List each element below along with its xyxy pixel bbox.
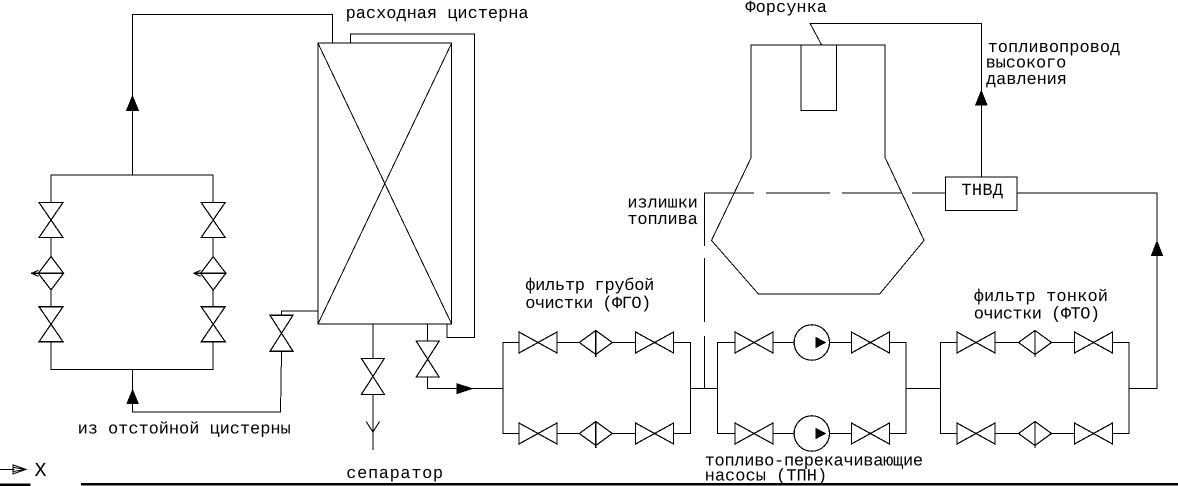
svg-text:ТНВД: ТНВД: [961, 182, 1003, 201]
svg-text:из отстойной цистерны: из отстойной цистерны: [78, 421, 291, 440]
valve right branch upper: [201, 203, 225, 238]
wire: TPN top branch: [718, 342, 906, 344]
flow arrow up into loop: [126, 389, 139, 405]
wire: separator line down with open arrow: [372, 394, 374, 449]
valve FTO top left: [957, 332, 995, 353]
X axis marker: [0, 468, 14, 470]
engine / cylinder outline: [712, 45, 925, 294]
flow arrow up on high pressure line: [975, 90, 988, 106]
svg-text:очистки (ФГО): очистки (ФГО): [525, 295, 651, 314]
flow arrow right to FGO: [457, 383, 474, 394]
drawing frame bottom border: [82, 483, 1178, 485]
pump TPN top: [794, 325, 829, 360]
wire: FTO left header: [940, 343, 942, 434]
svg-text:Форсунка: Форсунка: [745, 0, 827, 18]
svg-text:фильтр тонкой: фильтр тонкой: [974, 288, 1108, 307]
wire: TPN right header: [905, 343, 907, 434]
TNVD box: [946, 177, 1018, 210]
wire: heater loop right branch: [212, 175, 214, 369]
wire: outlet valve to FGO inlet: [428, 377, 503, 389]
check valve (diamond) right branch: [194, 257, 226, 291]
wire: tank drain to separator: [372, 324, 374, 359]
valve left branch lower: [39, 307, 63, 342]
expense tank front face with X: [318, 43, 452, 324]
check valve (diamond) left branch: [32, 257, 64, 291]
wire: FTO top branch: [941, 342, 1130, 344]
valve TPN bottom left: [735, 423, 773, 444]
wire: FGO right header: [690, 343, 692, 434]
filter FGO top: [579, 331, 612, 357]
valve TPN bottom right: [851, 423, 889, 444]
valve FTO bottom left: [957, 423, 995, 444]
axis origin tick: [0, 484, 29, 486]
valve FTO bottom right: [1075, 423, 1113, 444]
valve right branch lower: [201, 307, 225, 342]
wire: TPN bottom branch: [718, 433, 906, 435]
filter FTO top: [1019, 331, 1052, 357]
wire: horizontal from settling tank line: [133, 352, 282, 412]
svg-text:расходная цистерна: расходная цистерна: [346, 5, 529, 24]
engine centerline (dash) to TNVD: [705, 192, 946, 194]
wire: FTO bottom branch: [941, 433, 1130, 435]
svg-text:давления: давления: [986, 71, 1067, 90]
wire: inlet from settling tank up into loop: [132, 370, 134, 412]
svg-text:очистки (ФТО): очистки (ФТО): [974, 306, 1100, 325]
svg-text:топлива: топлива: [627, 211, 697, 230]
wire: valve top into tank left wall: [282, 311, 319, 314]
valve FGO bottom left: [519, 423, 557, 444]
wire: FGO to TPN: [691, 388, 718, 390]
injector pocket: [801, 45, 836, 111]
filter FTO bottom: [1019, 422, 1052, 448]
wire: FTO right header: [1128, 343, 1130, 434]
valve FTO top right: [1075, 332, 1113, 353]
overflow pipe around tank: [350, 34, 474, 338]
wire: heater loop bottom: [51, 369, 213, 371]
wire: TPN to FTO: [906, 388, 941, 390]
wire: FGO bottom branch: [503, 433, 691, 435]
svg-text:фильтр грубой: фильтр грубой: [525, 277, 654, 296]
valve FGO bottom right: [636, 423, 674, 444]
valve TPN top left: [735, 332, 773, 353]
valve left branch upper: [39, 203, 63, 238]
wire: supply line from loop up and right to expense tank top: [133, 14, 333, 175]
valve on separator line: [361, 358, 384, 394]
filter FGO bottom: [579, 422, 612, 448]
tank outlet valve: [416, 341, 439, 377]
flow arrow up to TNVD: [1151, 240, 1164, 256]
valve TPN top right: [851, 332, 889, 353]
svg-text:X: X: [35, 460, 47, 483]
svg-text:сепаратор: сепаратор: [346, 465, 443, 484]
wire: FGO left header: [502, 343, 504, 434]
wire: tank outlet down: [427, 324, 429, 341]
wire: FGO top branch: [503, 342, 691, 344]
wire: FTO outlet up to TNVD: [1017, 193, 1157, 388]
wire: excess fuel return (dashed vertical): [704, 194, 706, 389]
valve FGO top left: [519, 332, 557, 353]
pump TPN bottom: [794, 416, 829, 451]
flow arrow up on supply line: [126, 95, 139, 111]
wire: TPN left header: [717, 343, 719, 434]
wire: TNVD high pressure line to injector: [810, 24, 981, 178]
wire: heater loop rectangle top: [51, 174, 213, 176]
wire: heater loop left branch: [50, 175, 52, 369]
valve FGO top right: [636, 332, 674, 353]
svg-text:насосы (ТПН): насосы (ТПН): [705, 468, 828, 486]
valve on settling tank line: [270, 315, 293, 351]
